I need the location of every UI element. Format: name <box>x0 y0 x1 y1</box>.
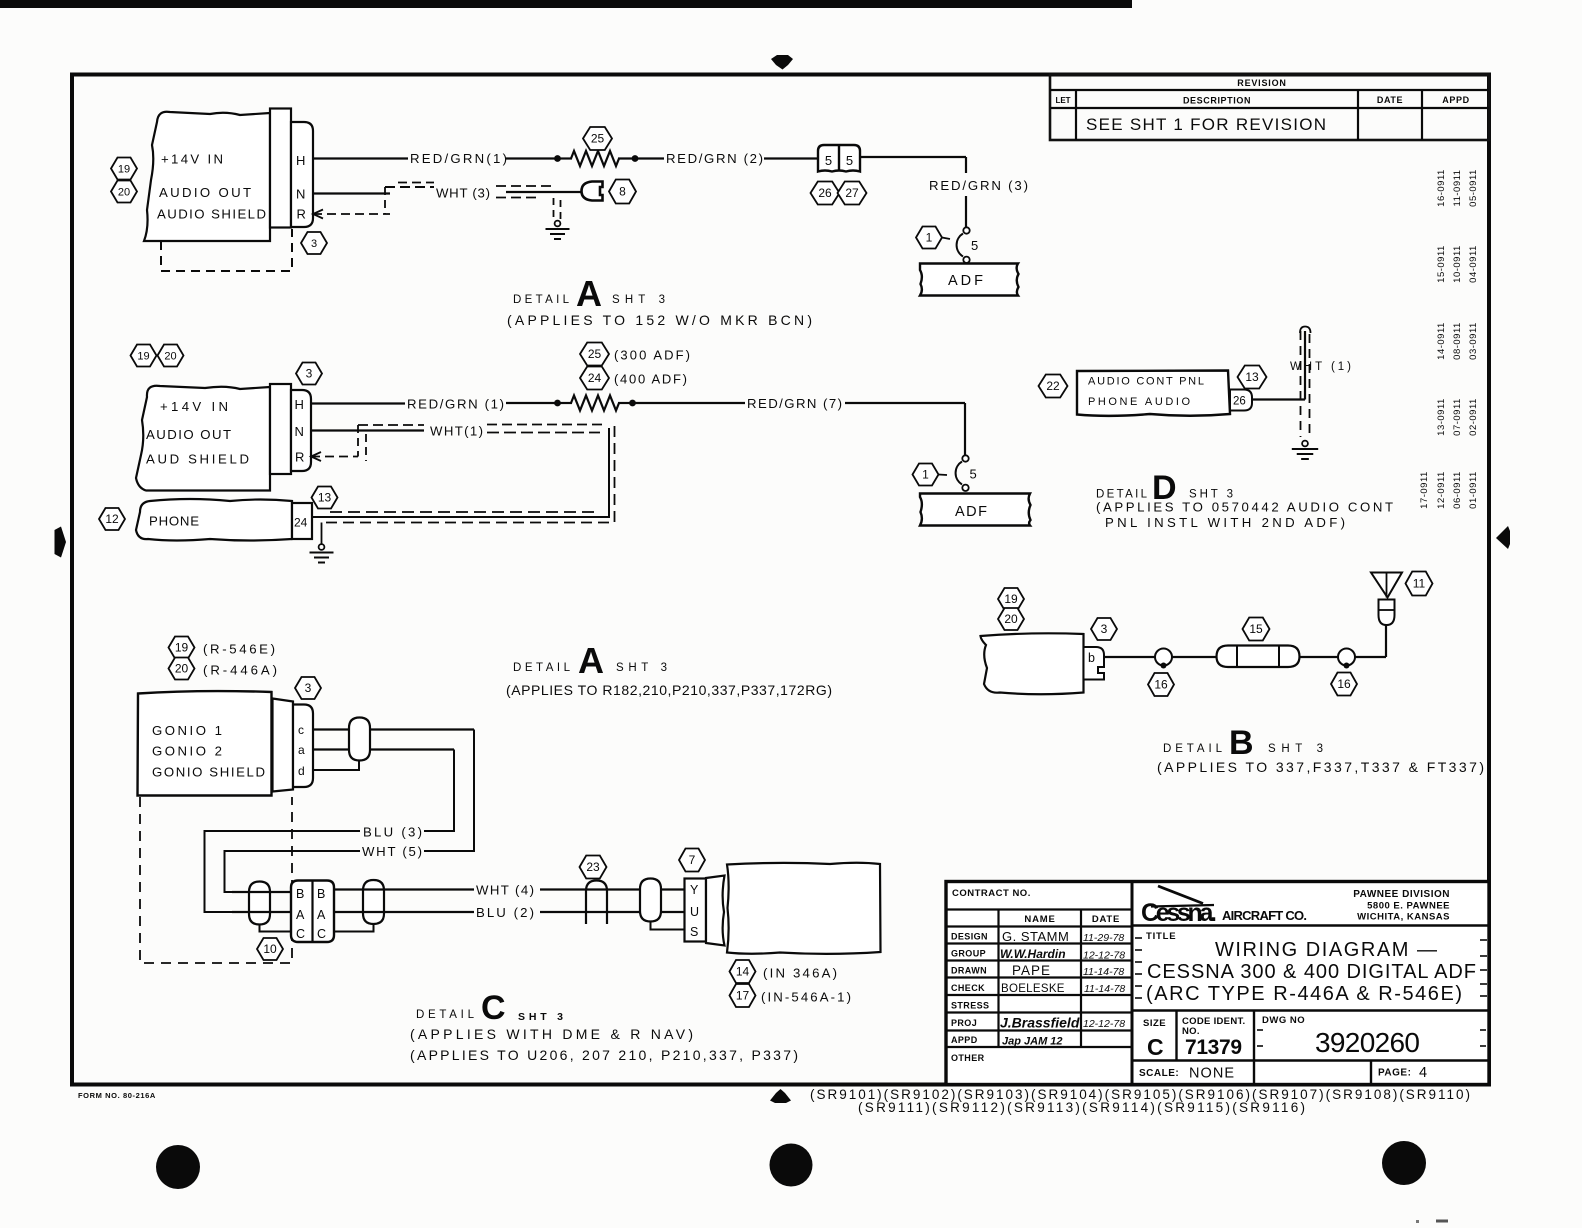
tick hex1 to arc <box>942 238 950 240</box>
svg-text:5800 E. PAWNEE: 5800 E. PAWNEE <box>1367 901 1450 912</box>
svg-text:A: A <box>578 640 604 681</box>
svg-text:C: C <box>296 927 305 941</box>
ferrite bead right of detail C <box>640 879 661 922</box>
svg-text:(IN-546A-1): (IN-546A-1) <box>761 990 851 1005</box>
junction dot left (mid) <box>554 400 561 407</box>
svg-text:LET: LET <box>1055 96 1070 105</box>
svg-text:11-0911: 11-0911 <box>1452 170 1463 207</box>
top scan bar <box>0 0 1132 8</box>
svg-text:12: 12 <box>105 512 119 526</box>
svg-text:20: 20 <box>118 186 130 198</box>
svg-text:3: 3 <box>311 238 317 250</box>
svg-text:A: A <box>317 908 326 922</box>
quick-disconnect arc (mid) <box>956 462 962 485</box>
svg-text:08-0911: 08-0911 <box>1452 322 1463 360</box>
svg-text:DATE: DATE <box>1377 95 1403 105</box>
svg-text:+14V IN: +14V IN <box>161 152 223 167</box>
svg-text:15: 15 <box>1249 622 1263 636</box>
svg-text:16-0911: 16-0911 <box>1436 169 1447 207</box>
svg-text:B: B <box>317 887 325 901</box>
callout hexagon flag 19 <box>111 158 137 180</box>
callout hexagon flag 1 <box>913 464 939 486</box>
svg-text:24: 24 <box>588 371 602 385</box>
scale row <box>1370 1061 1372 1085</box>
callout hexagon flag 3 <box>295 677 321 699</box>
svg-text:PAWNEE DIVISION: PAWNEE DIVISION <box>1353 889 1450 900</box>
shield dashes above WHT(1) <box>358 424 424 426</box>
wire to RED/GRN (7) <box>633 402 746 404</box>
callout hexagon flag 13 <box>312 487 338 509</box>
callout hexagon flag 3 <box>301 232 327 254</box>
svg-text:12-12-78: 12-12-78 <box>1083 1018 1125 1030</box>
svg-text:19: 19 <box>1004 592 1018 606</box>
svg-text:(APPLIES TO 337,F337,T337 & FT: (APPLIES TO 337,F337,T337 & FT337) <box>1157 759 1484 775</box>
svg-text:C: C <box>1147 1034 1164 1060</box>
svg-text:22: 22 <box>1046 379 1060 393</box>
svg-text:FORM NO. 80-216A: FORM NO. 80-216A <box>78 1091 156 1100</box>
svg-text:26: 26 <box>818 186 832 200</box>
wire N to WHT(1) <box>311 429 424 431</box>
title block outer frame <box>946 882 1489 1085</box>
svg-text:1: 1 <box>922 468 929 482</box>
svg-text:PNL INSTL WITH 2ND ADF): PNL INSTL WITH 2ND ADF) <box>1105 515 1345 530</box>
svg-text:12-0911: 12-0911 <box>1436 471 1447 509</box>
svg-text:25: 25 <box>591 132 605 146</box>
pin b tab <box>1084 647 1105 680</box>
shield dashes above WHT(3) <box>385 186 434 188</box>
connector shell P-A1 <box>270 109 291 228</box>
svg-text:10: 10 <box>263 942 277 956</box>
callout hexagon flag 25 <box>580 343 609 366</box>
wire right C pin to ferrite shield <box>334 925 374 932</box>
svg-text:TITLE: TITLE <box>1146 931 1176 942</box>
YUS pin block <box>685 879 707 942</box>
svg-text:C: C <box>317 927 326 941</box>
svg-text:SEE SHT 1 FOR REVISION: SEE SHT 1 FOR REVISION <box>1086 115 1326 134</box>
svg-text:27: 27 <box>845 186 859 200</box>
svg-text:G. STAMM: G. STAMM <box>1002 929 1069 944</box>
cable clamp right <box>1338 649 1355 666</box>
wire RED/GRN(2) to splice <box>764 157 818 159</box>
svg-text:b: b <box>1088 651 1095 665</box>
svg-text:WHT(1): WHT(1) <box>430 424 483 439</box>
right edge registration arrow <box>1496 526 1510 549</box>
splice connector 5|5 <box>818 145 860 172</box>
junction node dot left <box>554 155 561 162</box>
wire B row through ferrite <box>232 891 291 893</box>
svg-text:NAME: NAME <box>1024 914 1055 925</box>
wire H to RED/GRN(1) <box>313 157 408 159</box>
ground stub from pin 24 <box>321 523 323 545</box>
svg-text:OTHER: OTHER <box>951 1053 985 1063</box>
svg-text:(R-546E): (R-546E) <box>203 642 275 657</box>
wire BLU(2) row <box>334 911 474 913</box>
svg-text:12-12-78: 12-12-78 <box>1083 950 1125 962</box>
svg-text:RED/GRN(1): RED/GRN(1) <box>410 151 507 166</box>
shield dashes after WHT(3) <box>496 185 556 187</box>
svg-text:5: 5 <box>825 153 832 168</box>
svg-text:4: 4 <box>1419 1065 1427 1081</box>
svg-text:APPD: APPD <box>1442 95 1469 105</box>
svg-text:CONTRACT NO.: CONTRACT NO. <box>952 888 1031 899</box>
svg-text:N: N <box>295 424 304 439</box>
cessna logo area divider <box>1132 924 1489 927</box>
quick-disconnect contact bottom (mid) <box>962 485 968 491</box>
svg-text:H: H <box>296 153 305 168</box>
svg-text:26: 26 <box>1233 396 1246 408</box>
callout hexagon flag 14 <box>730 960 756 983</box>
connector shell (IN unit) <box>706 876 725 946</box>
svg-text:19: 19 <box>175 641 189 655</box>
svg-text:04-0911: 04-0911 <box>1468 245 1479 283</box>
callout hexagon flag 25 <box>583 127 612 150</box>
svg-text:10-0911: 10-0911 <box>1452 245 1463 283</box>
svg-text:24: 24 <box>294 516 308 530</box>
junction dot right (mid) <box>629 400 636 407</box>
wire clamp2 to antenna <box>1355 656 1386 658</box>
main border frame <box>72 75 1489 1085</box>
wire b to clamp1 <box>1104 656 1155 658</box>
svg-text:16: 16 <box>1337 677 1351 691</box>
ferrite bead (gonio leads) <box>349 718 370 761</box>
svg-text:AUDIO OUT: AUDIO OUT <box>159 185 251 200</box>
svg-text:01-0911: 01-0911 <box>1468 471 1479 509</box>
connector shell (gonio) <box>273 699 294 792</box>
wire coax to clamp2 <box>1300 656 1339 658</box>
svg-text:PHONE AUDIO: PHONE AUDIO <box>1088 396 1190 408</box>
callout hexagon flag 3 <box>1091 618 1117 640</box>
wire WHT(5) left segment <box>225 851 361 892</box>
wire to RED/GRN (2) label <box>635 157 664 159</box>
svg-text:WICHITA, KANSAS: WICHITA, KANSAS <box>1357 912 1450 923</box>
svg-text:S: S <box>690 925 698 939</box>
antenna base (sense antenna) <box>1379 600 1395 626</box>
callout hexagon flag 20 <box>158 345 184 367</box>
wire WHT(3) into terminal <box>506 191 582 193</box>
quick-disconnect contact bottom <box>963 257 969 263</box>
phone pin 24 box <box>292 503 312 539</box>
quick-disconnect arc <box>957 234 963 257</box>
shield dashed outline below unit <box>161 229 292 271</box>
ADF receiver box (detail B) <box>981 633 1084 694</box>
callout hexagon flag 23 <box>580 856 607 879</box>
shield right side dashed <box>320 426 615 523</box>
svg-text:CHECK: CHECK <box>951 983 985 993</box>
svg-text:14: 14 <box>736 965 750 979</box>
callout hexagon flag 19 <box>998 588 1024 610</box>
svg-text:23: 23 <box>586 860 600 874</box>
svg-text:DRAWN: DRAWN <box>951 966 987 976</box>
svg-text:STRESS: STRESS <box>951 1001 989 1011</box>
svg-text:GONIO SHIELD: GONIO SHIELD <box>152 765 265 780</box>
title area <box>1132 1009 1489 1012</box>
scan artifact dash <box>1436 1220 1448 1223</box>
svg-text:3: 3 <box>305 681 312 695</box>
svg-text:03-0911: 03-0911 <box>1468 322 1479 360</box>
shield dash from pin R (mid) <box>311 456 358 458</box>
svg-text:13-0911: 13-0911 <box>1436 398 1447 436</box>
terminal lug (D shape) <box>582 182 603 201</box>
svg-text:Y: Y <box>690 883 699 897</box>
callout hexagon flag 20 <box>169 658 195 680</box>
callout hexagon flag 24 <box>580 367 609 390</box>
svg-text:15-0911: 15-0911 <box>1436 245 1447 283</box>
ground G-A1 <box>555 221 561 227</box>
callout hexagon flag 11 <box>1406 572 1433 596</box>
svg-text:05-0911: 05-0911 <box>1468 169 1479 207</box>
wire N to shield region <box>313 192 390 194</box>
wire c <box>313 728 474 730</box>
callout hexagon flag 19 <box>131 345 157 367</box>
registration dot left <box>156 1145 200 1189</box>
top center registration arrow <box>771 55 793 70</box>
callout hexagon flag 26 <box>811 182 840 205</box>
wire WHT(4) row <box>334 888 474 890</box>
shield dashes after WHT(1) top <box>487 424 606 426</box>
wire A row through ferrite <box>232 911 291 913</box>
svg-text:20: 20 <box>1004 612 1018 626</box>
svg-text:PROJ: PROJ <box>951 1018 977 1028</box>
svg-text:7: 7 <box>689 853 696 867</box>
callout hexagon flag 1 <box>916 227 942 249</box>
svg-text:AUDIO SHIELD: AUDIO SHIELD <box>157 207 266 222</box>
callout hexagon flag 7 <box>679 849 705 872</box>
callout hexagon flag 17 <box>730 984 756 1007</box>
svg-text:1: 1 <box>926 231 933 245</box>
svg-text:N: N <box>296 187 305 202</box>
wire c corner down <box>424 730 474 852</box>
svg-text:BLU (2): BLU (2) <box>476 905 534 920</box>
tick hex1 to arc (mid) <box>939 474 948 477</box>
ADF receiver box (detail A) <box>920 264 1019 296</box>
callout hexagon flag 15 <box>1243 618 1270 641</box>
title block left table gridlines <box>946 882 1132 1085</box>
wire splice to corner <box>860 156 966 158</box>
svg-text:02-0911: 02-0911 <box>1468 398 1479 436</box>
svg-text:(R-446A): (R-446A) <box>203 663 277 678</box>
svg-text:(ARC TYPE R-446A & R-546E): (ARC TYPE R-446A & R-546E) <box>1146 983 1462 1005</box>
svg-text:R: R <box>297 207 306 222</box>
svg-text:(APPLIES TO U206, 207 210, P21: (APPLIES TO U206, 207 210, P210,337, P33… <box>410 1047 798 1063</box>
callout hexagon flag 3 <box>296 363 322 385</box>
svg-text:BOELESKE: BOELESKE <box>1001 983 1065 995</box>
GONIO unit box <box>138 691 272 795</box>
svg-text:B: B <box>296 887 304 901</box>
callout hexagon flag 16 <box>1148 673 1174 696</box>
wire BLU(3) left segment <box>205 831 361 912</box>
wire clamp1 to coax <box>1172 656 1218 658</box>
svg-text:U: U <box>690 905 699 919</box>
callout hexagon flag 27 <box>838 182 867 205</box>
svg-text:DWG NO: DWG NO <box>1262 1015 1305 1026</box>
shield dash from pin R <box>313 213 390 215</box>
svg-text:3: 3 <box>306 367 313 381</box>
svg-text:WHT (4): WHT (4) <box>476 883 534 898</box>
wire corner down <box>965 157 967 173</box>
wire to junction (mid) <box>506 402 557 404</box>
svg-text:19: 19 <box>118 163 130 175</box>
svg-text:5: 5 <box>970 467 977 482</box>
svg-text:06-0911: 06-0911 <box>1452 471 1463 509</box>
svg-text:d: d <box>298 764 305 778</box>
svg-text:A: A <box>296 908 305 922</box>
svg-text:PAGE:: PAGE: <box>1378 1068 1411 1079</box>
svg-text:PAPE: PAPE <box>1012 963 1051 978</box>
panel pin 26 tab <box>1230 390 1252 411</box>
svg-text:3920260: 3920260 <box>1315 1027 1420 1058</box>
size/code/dwg row dividers <box>1175 1011 1177 1061</box>
wire S pin to ferrite <box>651 922 685 930</box>
svg-text:SHT 3: SHT 3 <box>518 1011 563 1023</box>
connector shell P-A2 <box>270 384 291 474</box>
svg-text:17-0911: 17-0911 <box>1419 471 1430 509</box>
wire H to RED/GRN(1) (mid) <box>311 402 405 404</box>
antenna riser <box>1385 625 1387 657</box>
svg-text:11-14-78: 11-14-78 <box>1084 983 1125 995</box>
svg-text:ADF: ADF <box>948 273 983 289</box>
shield step vertical dash <box>384 187 386 214</box>
svg-text:20: 20 <box>175 662 189 676</box>
svg-text:11-14-78: 11-14-78 <box>1083 966 1124 978</box>
resistor R-B 300/400 ADF <box>556 402 572 404</box>
callout hexagon flag 19 <box>169 637 195 659</box>
callout hexagon flag 8 <box>609 180 636 204</box>
svg-text:REVISION: REVISION <box>1237 78 1286 88</box>
callout hexagon flag 13 <box>1238 366 1267 389</box>
cable clamp left <box>1155 649 1172 666</box>
wire WHT(4) to YUS <box>540 888 684 890</box>
callout hexagon flag 10 <box>257 938 283 960</box>
callout hexagon flag 22 <box>1039 375 1068 398</box>
svg-text:H: H <box>295 397 304 412</box>
svg-text:11: 11 <box>1413 577 1426 591</box>
shield right side solid <box>311 428 609 517</box>
registration dot center <box>770 1144 813 1187</box>
connector pin block H/N/R <box>291 122 313 227</box>
svg-text:07-0911: 07-0911 <box>1452 398 1463 436</box>
svg-text:SCALE:: SCALE: <box>1139 1068 1179 1079</box>
BAC double connector <box>291 881 334 943</box>
svg-text:8: 8 <box>619 185 626 199</box>
arrowhead at R <box>313 210 323 219</box>
revision table <box>1050 75 1489 141</box>
wire a <box>313 748 454 750</box>
svg-text:13: 13 <box>1245 370 1259 384</box>
callout hexagon flag 20 <box>111 181 137 203</box>
svg-text:ADF: ADF <box>955 504 987 520</box>
antenna funnel <box>1371 573 1402 598</box>
wire RED/GRN(1) to junction <box>506 157 557 159</box>
svg-text:R: R <box>295 450 304 465</box>
bottom center registration arrow <box>770 1089 791 1103</box>
wire a corner down <box>424 750 454 832</box>
svg-text:+14V IN: +14V IN <box>160 399 228 414</box>
callout hexagon flag 12 <box>99 508 125 530</box>
svg-text:c: c <box>298 723 304 737</box>
radio unit box U-A2 <box>136 386 270 491</box>
corner down to switch (mid) <box>964 403 966 455</box>
svg-text:WHT (5): WHT (5) <box>362 844 422 859</box>
svg-text:PHONE: PHONE <box>149 514 199 529</box>
wire down to switch contact <box>965 196 967 227</box>
pin block c/a/d <box>293 705 313 788</box>
svg-text:5: 5 <box>971 238 978 253</box>
quick-disconnect contact top <box>963 227 969 233</box>
svg-text:Cessna.: Cessna. <box>1141 899 1217 927</box>
svg-text:W.W.Hardin: W.W.Hardin <box>1000 947 1066 961</box>
IN-346A indicator box <box>727 863 881 954</box>
junction node dot right <box>632 155 639 162</box>
left edge registration arrow <box>55 527 67 558</box>
riser shield dashes <box>1300 331 1302 437</box>
svg-text:C: C <box>481 989 506 1027</box>
wire BLU(2) to YUS <box>540 911 684 913</box>
svg-text:(APPLIES WITH DME & R NAV): (APPLIES WITH DME & R NAV) <box>410 1026 693 1042</box>
shield drop dashes to ground <box>553 198 555 219</box>
svg-text:APPD: APPD <box>951 1035 978 1045</box>
quick-disconnect contact top (mid) <box>962 455 968 461</box>
svg-text:NONE: NONE <box>1189 1066 1234 1082</box>
svg-text:Jap JAM 12: Jap JAM 12 <box>1002 1036 1063 1048</box>
wire left C pin to ferrite shield <box>260 925 292 932</box>
svg-text:3: 3 <box>1101 622 1108 636</box>
svg-text:WHT (3): WHT (3) <box>436 186 490 201</box>
svg-text:GROUP: GROUP <box>951 949 986 959</box>
rotated revision numbers right margin <box>1419 169 1479 509</box>
riser top curl <box>1300 327 1311 334</box>
shield dashed boundary (detail C) <box>140 797 292 963</box>
ADF receiver box (mid) <box>920 494 1031 526</box>
registration dot right <box>1382 1141 1426 1185</box>
svg-text:B: B <box>1229 724 1254 762</box>
callout hexagon flag 16 <box>1331 673 1357 696</box>
svg-text:19: 19 <box>137 350 149 362</box>
svg-text:WIRING DIAGRAM —: WIRING DIAGRAM — <box>1215 939 1437 961</box>
svg-text:WHT (1): WHT (1) <box>1290 361 1351 373</box>
shield clamp (hex 23) open capsule <box>586 881 607 925</box>
svg-text:J.Brassfield: J.Brassfield <box>1000 1015 1080 1031</box>
svg-text:CESSNA 300 & 400 DIGITAL ADF: CESSNA 300 & 400 DIGITAL ADF <box>1147 961 1476 983</box>
connector pin block H/N/R (mid) <box>291 390 311 471</box>
ground G-A2 <box>319 544 325 550</box>
svg-text:5: 5 <box>846 153 853 168</box>
svg-text:DATE: DATE <box>1092 914 1120 925</box>
svg-text:(APPLIES TO R182,210,P210,337,: (APPLIES TO R182,210,P210,337,P337,172RG… <box>506 682 832 698</box>
svg-text:11-29-78: 11-29-78 <box>1083 932 1124 944</box>
audio control panel box <box>1077 371 1230 416</box>
coax inline connector <box>1217 646 1300 668</box>
wire RED/GRN(7) to corner <box>845 402 965 404</box>
svg-text:17: 17 <box>736 989 750 1003</box>
ferrite bead left (BAC) <box>249 882 270 925</box>
resistor (noise filter) R-A <box>556 157 572 159</box>
arrowhead at R (mid) <box>311 452 321 461</box>
svg-text:16: 16 <box>1154 678 1168 692</box>
svg-text:(APPLIES TO 0570442 AUDIO CONT: (APPLIES TO 0570442 AUDIO CONT <box>1096 500 1393 515</box>
svg-text:20: 20 <box>164 350 176 362</box>
radio unit box U-A1 (+14V IN / AUDIO OUT / AUDIO SHIELD) <box>144 112 270 241</box>
svg-text:71379: 71379 <box>1185 1036 1242 1059</box>
ferrite bead right (BAC) <box>363 880 384 924</box>
svg-text:14-0911: 14-0911 <box>1436 322 1447 360</box>
title box edge tick marks <box>1135 937 1142 939</box>
ground G-D <box>1302 441 1308 447</box>
wire pin26 to WHT(1) riser <box>1252 398 1305 400</box>
shield step verticals (mid) <box>357 425 359 457</box>
PHONE unit box <box>136 499 292 541</box>
WHT(1) riser solid <box>1304 331 1306 400</box>
svg-text:DESIGN: DESIGN <box>951 932 988 942</box>
